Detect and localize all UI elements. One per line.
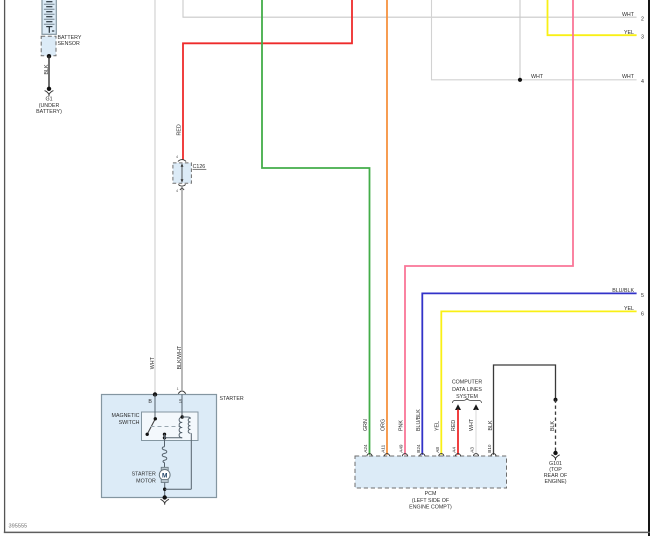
svg-text:A4: A4 <box>452 447 457 453</box>
svg-text:WHT: WHT <box>469 418 475 431</box>
svg-text:BATTERY): BATTERY) <box>36 109 62 115</box>
svg-text:ENGINE): ENGINE) <box>544 479 566 485</box>
svg-text:2: 2 <box>641 16 644 22</box>
svg-text:5: 5 <box>641 293 644 299</box>
svg-text:WHT: WHT <box>531 74 544 80</box>
svg-text:WHT: WHT <box>150 356 156 369</box>
svg-text:A11: A11 <box>381 444 386 452</box>
svg-text:B10: B10 <box>487 444 492 453</box>
svg-text:M: M <box>162 472 167 479</box>
svg-text:MAGNETIC: MAGNETIC <box>112 413 140 419</box>
svg-text:PCM: PCM <box>425 491 437 497</box>
svg-text:SENSOR: SENSOR <box>58 41 81 47</box>
svg-text:6: 6 <box>641 311 644 317</box>
svg-text:395555: 395555 <box>9 524 28 530</box>
svg-text:WHT: WHT <box>622 12 635 18</box>
svg-text:STARTER: STARTER <box>220 396 244 402</box>
svg-text:YEL: YEL <box>624 306 634 312</box>
svg-text:A3: A3 <box>470 447 475 453</box>
svg-text:(LEFT SIDE OF: (LEFT SIDE OF <box>412 498 450 504</box>
svg-text:(UNDER: (UNDER <box>39 103 60 109</box>
svg-text:B24: B24 <box>416 444 421 453</box>
svg-text:BATTERY: BATTERY <box>58 35 82 41</box>
svg-text:STARTER: STARTER <box>132 471 156 477</box>
svg-text:PNK: PNK <box>399 420 405 431</box>
svg-text:MOTOR: MOTOR <box>136 478 156 484</box>
svg-text:BLU/BLK: BLU/BLK <box>612 288 634 294</box>
svg-text:GRN: GRN <box>363 419 369 431</box>
svg-text:BLK: BLK <box>44 64 50 74</box>
svg-text:DATA LINES: DATA LINES <box>452 387 482 393</box>
svg-text:RED: RED <box>177 124 183 135</box>
svg-text:A24: A24 <box>363 444 368 453</box>
svg-text:ENGINE COMPT): ENGINE COMPT) <box>409 504 452 510</box>
svg-text:1: 1 <box>177 387 179 391</box>
svg-text:3: 3 <box>641 35 644 41</box>
svg-text:BLU/BLK: BLU/BLK <box>416 409 422 431</box>
svg-text:G1: G1 <box>45 97 52 103</box>
svg-text:COMPUTER: COMPUTER <box>452 380 482 386</box>
svg-text:RED: RED <box>451 420 457 431</box>
svg-text:B: B <box>148 399 152 405</box>
svg-text:BLK: BLK <box>488 420 494 430</box>
svg-text:SWITCH: SWITCH <box>119 420 140 426</box>
svg-text:A8: A8 <box>435 447 440 453</box>
svg-text:4: 4 <box>641 79 644 85</box>
svg-text:SYSTEM: SYSTEM <box>456 394 478 400</box>
svg-text:ORG: ORG <box>381 419 387 431</box>
svg-text:WHT: WHT <box>622 74 635 80</box>
svg-text:YEL: YEL <box>624 30 634 36</box>
svg-text:4: 4 <box>176 189 178 193</box>
svg-text:BLK/WHT: BLK/WHT <box>177 345 183 369</box>
svg-text:A49: A49 <box>399 444 404 453</box>
svg-text:4: 4 <box>176 155 178 159</box>
svg-text:YEL: YEL <box>435 421 441 431</box>
svg-text:BLK: BLK <box>550 421 556 431</box>
